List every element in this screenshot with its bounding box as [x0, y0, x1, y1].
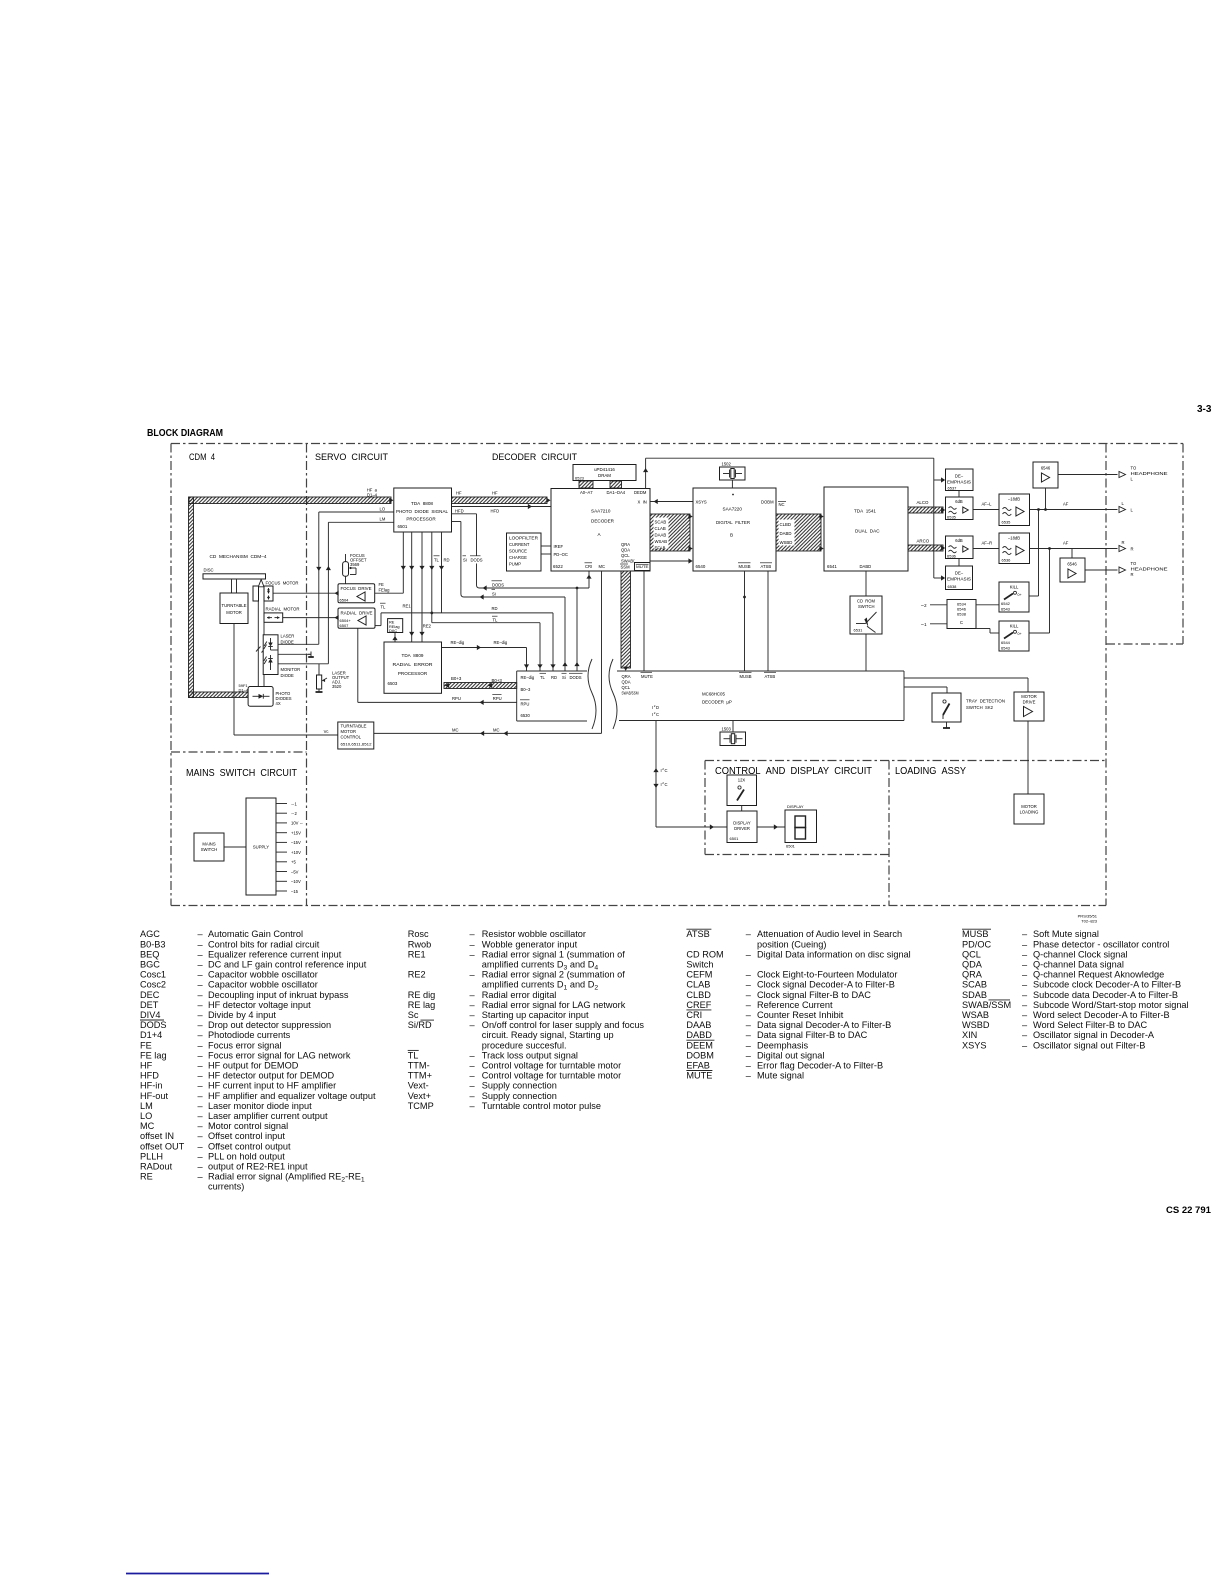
- frame control and display circuit box: [705, 761, 1106, 906]
- svg-text:DE–: DE–: [955, 571, 964, 576]
- svg-text:DIGITAL FILTER: DIGITAL FILTER: [716, 520, 751, 525]
- svg-text:6541: 6541: [827, 564, 837, 569]
- block -18dB amp right 6536: [999, 533, 1030, 564]
- svg-text:FE: FE: [140, 1040, 152, 1050]
- svg-text:C: C: [960, 620, 963, 625]
- bus SCAB/CLAB/DAAB/WSAB/EFAB hatched SAA7210 to SAA7220: [650, 514, 693, 551]
- svg-text:SSM: SSM: [621, 565, 631, 570]
- svg-text:IREF: IREF: [554, 544, 564, 549]
- terminal TO HEADPHONE R: [1119, 561, 1168, 577]
- block SAA7210 decoder A 6522: [551, 489, 650, 572]
- svg-text:position (Cueing): position (Cueing): [757, 939, 826, 949]
- svg-text:SWAB/: SWAB/: [621, 559, 635, 564]
- title DECODER CIRCUIT: [492, 452, 577, 463]
- svg-text:6501: 6501: [730, 836, 740, 841]
- svg-text:AF–L: AF–L: [982, 502, 993, 507]
- bus D1-4 hatched left bar: [189, 497, 194, 698]
- svg-text:AF: AF: [1063, 502, 1069, 507]
- svg-text:HF: HF: [456, 491, 462, 496]
- svg-text:offset IN: offset IN: [140, 1131, 174, 1141]
- svg-text:–: –: [198, 970, 204, 980]
- title MAINS SWITCH CIRCUIT: [186, 767, 297, 779]
- svg-text:WSBD: WSBD: [780, 540, 793, 545]
- svg-text:–: –: [470, 929, 476, 939]
- svg-text:MC68HC05: MC68HC05: [702, 692, 725, 697]
- svg-text:DEEM: DEEM: [686, 1040, 713, 1050]
- svg-text:–: –: [198, 1091, 204, 1101]
- svg-text:–5V: –5V: [291, 869, 299, 874]
- svg-text:6544: 6544: [1001, 640, 1011, 645]
- wire kill timer to KILL 6542: [976, 604, 999, 606]
- svg-text:Radial error signal for LAG ne: Radial error signal for LAG network: [482, 1000, 626, 1010]
- svg-text:DC and LF gain control referen: DC and LF gain control reference input: [208, 960, 367, 970]
- wire display driver to display: [757, 824, 785, 829]
- svg-text:SWITCH: SWITCH: [858, 604, 875, 609]
- svg-text:6543: 6543: [1001, 607, 1011, 612]
- svg-text:4X: 4X: [276, 701, 281, 706]
- svg-text:HFD: HFD: [455, 509, 464, 514]
- wire RE1 TDA8808 to TDA8809: [409, 532, 414, 642]
- svg-text:C: C: [665, 768, 668, 773]
- block kill timer 6534/6546/6538 C: [947, 600, 976, 629]
- block TDA8808 photo diode signal processor 6501: [394, 488, 452, 532]
- svg-text:DEC: DEC: [140, 990, 160, 1000]
- block supply: [246, 798, 276, 895]
- svg-text:Turntable control motor pulse: Turntable control motor pulse: [482, 1101, 601, 1111]
- svg-text:FE: FE: [379, 582, 385, 587]
- svg-text:6dB: 6dB: [955, 499, 963, 504]
- wire AF-L 6dB to -18dB: [973, 502, 999, 510]
- svg-text:offset OUT: offset OUT: [140, 1141, 185, 1151]
- svg-text:–: –: [470, 1091, 476, 1101]
- label Si DODS under TDA8808: [462, 556, 483, 564]
- svg-text:R: R: [1122, 540, 1125, 545]
- svg-text:Sc: Sc: [408, 1010, 419, 1020]
- frame CDM4/SERVO divider: [306, 444, 308, 906]
- svg-text:CLAB: CLAB: [655, 526, 666, 531]
- svg-text:RD: RD: [444, 558, 450, 563]
- svg-text:RADIAL DRIVE: RADIAL DRIVE: [341, 611, 373, 616]
- svg-text:DODS: DODS: [140, 1020, 167, 1030]
- wire decoder uP to motor drive: [904, 678, 1028, 692]
- svg-text:–: –: [746, 980, 752, 990]
- svg-text:6542: 6542: [1001, 601, 1011, 606]
- wire headphone amp L feed: [1045, 488, 1047, 510]
- block tray detection switch SK2: [932, 693, 1005, 722]
- svg-text:currents): currents): [208, 1182, 244, 1192]
- svg-text:Track loss output signal: Track loss output signal: [482, 1050, 578, 1060]
- svg-text:TRAY DETECTION: TRAY DETECTION: [966, 699, 1005, 704]
- svg-text:Resistor wobble oscillator: Resistor wobble oscillator: [482, 929, 586, 939]
- wire headphone L output: [1058, 474, 1118, 476]
- svg-text:–: –: [198, 1111, 204, 1121]
- block display driver 6501: [727, 811, 757, 843]
- block key switch 12X: [727, 775, 757, 806]
- svg-text:MAINS SWITCH CIRCUIT: MAINS SWITCH CIRCUIT: [186, 767, 297, 779]
- svg-text:CS 22 791: CS 22 791: [1166, 1205, 1212, 1216]
- wire I2C bus uP to display driver: [653, 721, 727, 830]
- svg-text:FElag: FElag: [379, 588, 391, 593]
- svg-text:B0–3: B0–3: [521, 687, 531, 692]
- svg-text:+10V: +10V: [291, 850, 301, 855]
- bus QRA/QDA/QCL/SWAB hatched SAA7210 to decoder uP: [621, 571, 631, 671]
- svg-text:RD: RD: [492, 606, 498, 611]
- svg-text:6530: 6530: [521, 713, 531, 718]
- bus B0+3 hatched TDA8809 to servo uP 6530: [444, 676, 517, 689]
- svg-text:–: –: [746, 1000, 752, 1010]
- svg-text:L: L: [1131, 477, 1134, 482]
- wire CD ROM switch to decoder uP: [865, 634, 867, 671]
- svg-text:D1–4: D1–4: [367, 493, 378, 498]
- wire DEDM SAA7210 to de-emphasis blocks: [643, 458, 945, 580]
- svg-text:–: –: [470, 1010, 476, 1020]
- svg-text:L: L: [1122, 501, 1125, 506]
- wire DODS 6530 to SAA7210 CRI: [452, 514, 592, 671]
- svg-text:TURNTABLE: TURNTABLE: [222, 603, 247, 608]
- label AC phase 2 input: [921, 603, 948, 608]
- svg-text:CLBD: CLBD: [686, 990, 711, 1000]
- svg-text:MUSB: MUSB: [740, 674, 752, 679]
- svg-text:RADout: RADout: [140, 1162, 173, 1172]
- svg-text:–: –: [198, 1101, 204, 1111]
- bus D1-4 hatched bottom bar: [189, 692, 249, 698]
- svg-text:–: –: [470, 1050, 476, 1060]
- svg-text:HF amplifier and equalizer vol: HF amplifier and equalizer voltage outpu…: [208, 1091, 376, 1101]
- svg-text:DODS: DODS: [471, 558, 483, 563]
- svg-text:RE2: RE2: [423, 624, 432, 629]
- svg-text:HEADPHONE: HEADPHONE: [1131, 471, 1168, 476]
- svg-text:PUMP: PUMP: [509, 562, 521, 567]
- svg-text:–: –: [470, 1000, 476, 1010]
- svg-text:Wobble generator input: Wobble generator input: [482, 939, 578, 949]
- svg-text:AF–R: AF–R: [982, 541, 993, 546]
- svg-text:–: –: [1022, 990, 1028, 1000]
- svg-text:–: –: [198, 1162, 204, 1172]
- wire LO TDA8808 to laser diode: [316, 507, 394, 645]
- svg-text:DAAB: DAAB: [655, 533, 667, 538]
- svg-text:–: –: [198, 929, 204, 939]
- svg-text:DRIVE: DRIVE: [1023, 700, 1036, 705]
- block TDA1541 dual DAC 6541: [824, 487, 908, 571]
- block motor drive: [1014, 692, 1044, 721]
- svg-text:Automatic Gain Control: Automatic Gain Control: [208, 929, 303, 939]
- svg-text:MC: MC: [140, 1121, 155, 1131]
- svg-text:EMPHASIS: EMPHASIS: [947, 577, 971, 582]
- terminal TO HEADPHONE L: [1119, 466, 1168, 482]
- wire AF R output line: [1030, 541, 1118, 550]
- optical pickup shaft: [256, 580, 266, 687]
- svg-text:LOADING: LOADING: [1020, 810, 1039, 815]
- svg-text:circuit. Ready signal, Startin: circuit. Ready signal, Starting up: [482, 1030, 614, 1040]
- svg-text:Q-channel Data signal: Q-channel Data signal: [1033, 960, 1124, 970]
- svg-text:SWAB/SSM: SWAB/SSM: [622, 691, 639, 696]
- label D1-4 photodiode output: [239, 683, 249, 693]
- footer blue line: [126, 1573, 269, 1575]
- svg-text:QCL: QCL: [621, 553, 630, 558]
- svg-text:LM: LM: [380, 517, 386, 522]
- svg-text:D1+4: D1+4: [140, 1030, 162, 1040]
- wire QRA subcode SAA7210 to SAA7220: [650, 558, 693, 563]
- svg-text:Supply connection: Supply connection: [482, 1081, 557, 1091]
- svg-text:BLOCK DIAGRAM: BLOCK DIAGRAM: [147, 428, 223, 439]
- block TDA8809 radial error processor 6503: [384, 642, 442, 693]
- block headphone amp 6546 left: [1033, 462, 1058, 488]
- wire turntable motor Vc to turntable motor control: [234, 624, 338, 736]
- svg-text:Vext-: Vext-: [408, 1081, 429, 1091]
- wire X IN SAA7220 to SAA7210: [650, 499, 693, 504]
- svg-text:CHARGE: CHARGE: [509, 555, 527, 560]
- svg-text:–: –: [470, 1061, 476, 1071]
- svg-text:10V ∼: 10V ∼: [291, 821, 303, 826]
- block turntable motor control 6510,6511,6512: [338, 722, 374, 749]
- wire motor drive to motor loading: [1027, 721, 1029, 794]
- svg-text:6543: 6543: [1001, 646, 1011, 651]
- wire mains switch to supply: [224, 846, 246, 848]
- svg-text:–: –: [198, 949, 204, 959]
- svg-text:QRA: QRA: [962, 970, 983, 980]
- svg-text:LOOPFILTER: LOOPFILTER: [509, 536, 538, 541]
- svg-text:RPU: RPU: [452, 696, 461, 701]
- wire MUTE SAA7210 to uP: [643, 571, 645, 672]
- svg-text:–: –: [746, 1010, 752, 1020]
- svg-text:Clock Eight-to-Fourteen Modula: Clock Eight-to-Fourteen Modulator: [757, 970, 897, 980]
- svg-text:DABD: DABD: [780, 531, 792, 536]
- bus ALCO hatched TDA1541 to 6dB-L: [908, 500, 945, 513]
- svg-text:HFD: HFD: [140, 1071, 159, 1081]
- disc: [203, 568, 266, 580]
- svg-text:6507: 6507: [340, 623, 350, 628]
- svg-text:–: –: [746, 1061, 752, 1071]
- svg-text:MC: MC: [493, 728, 500, 733]
- svg-text:–: –: [198, 960, 204, 970]
- svg-text:B0-B3: B0-B3: [140, 939, 166, 949]
- svg-text:Laser monitor diode input: Laser monitor diode input: [208, 1101, 312, 1111]
- svg-text:DIODE: DIODE: [281, 673, 294, 678]
- block radial drive 6504+/6507: [338, 608, 375, 628]
- svg-text:D: D: [656, 705, 659, 710]
- svg-text:FOCUS MOTOR: FOCUS MOTOR: [266, 581, 299, 586]
- svg-text:QCL: QCL: [962, 949, 981, 959]
- crystal 1503: [720, 721, 746, 746]
- svg-text:–: –: [1022, 960, 1028, 970]
- lens: [253, 586, 259, 601]
- svg-text:TTM-: TTM-: [408, 1061, 430, 1071]
- svg-text:–: –: [470, 990, 476, 1000]
- svg-text:SWITCH: SWITCH: [201, 847, 218, 852]
- svg-text:A0–A7: A0–A7: [580, 490, 593, 495]
- svg-text:DECODER: DECODER: [591, 519, 615, 524]
- svg-text:Vc: Vc: [324, 729, 329, 734]
- svg-text:–: –: [1022, 1010, 1028, 1020]
- svg-text:–: –: [198, 1020, 204, 1030]
- svg-text:DOBM: DOBM: [686, 1050, 714, 1060]
- wire 12X to display driver: [741, 806, 743, 812]
- svg-text:MONITOR: MONITOR: [281, 667, 301, 672]
- svg-text:Offset control output: Offset control output: [208, 1141, 291, 1151]
- svg-text:DISPLAY: DISPLAY: [733, 821, 751, 826]
- svg-text:–: –: [198, 990, 204, 1000]
- svg-text:WSAB: WSAB: [655, 539, 668, 544]
- svg-text:Radial error signal 2 (summati: Radial error signal 2 (summation of: [482, 970, 625, 980]
- svg-text:CRI: CRI: [686, 1010, 702, 1020]
- block de-emphasis 6537: [946, 469, 974, 491]
- svg-text:RD: RD: [551, 675, 557, 680]
- svg-text:RADIAL MOTOR: RADIAL MOTOR: [266, 607, 300, 612]
- svg-text:TDA 8809: TDA 8809: [402, 653, 424, 658]
- wire KILL 6544 to R line: [1029, 549, 1050, 634]
- svg-text:6522: 6522: [553, 564, 563, 569]
- svg-text:Equalizer reference current in: Equalizer reference current input: [208, 949, 342, 959]
- svg-text:Digital Data information on di: Digital Data information on disc signal: [757, 949, 911, 959]
- svg-text:Rosc: Rosc: [408, 929, 429, 939]
- svg-text:3520: 3520: [332, 684, 342, 689]
- svg-text:∼2: ∼2: [921, 603, 928, 608]
- wire radial drive to radial motor: [283, 615, 339, 620]
- svg-text:–: –: [198, 1071, 204, 1081]
- svg-text:L: L: [1131, 508, 1134, 513]
- svg-text:SAA7220: SAA7220: [723, 507, 743, 512]
- svg-text:Offset control input: Offset control input: [208, 1131, 285, 1141]
- svg-text:Focus error signal for LAG net: Focus error signal for LAG network: [208, 1050, 351, 1060]
- svg-text:HEADPHONE: HEADPHONE: [1131, 567, 1168, 572]
- label CD MECHANISM CDM-4: [210, 554, 268, 559]
- svg-text:RE2: RE2: [408, 970, 426, 980]
- svg-text:6537: 6537: [948, 485, 958, 490]
- svg-text:FE lag: FE lag: [140, 1050, 167, 1060]
- svg-text:PROCESSOR: PROCESSOR: [398, 671, 428, 676]
- svg-text:TURNTABLE: TURNTABLE: [341, 724, 367, 729]
- svg-text:Word Select Filter-B to DAC: Word Select Filter-B to DAC: [1033, 1020, 1148, 1030]
- svg-text:LO: LO: [380, 507, 386, 512]
- svg-text:Supply connection: Supply connection: [482, 1091, 557, 1101]
- svg-text:+5: +5: [291, 860, 296, 865]
- block laser and monitor diode: [263, 634, 300, 679]
- svg-text:12X: 12X: [738, 778, 746, 783]
- svg-text:RE: RE: [140, 1172, 153, 1182]
- svg-text:DAAB: DAAB: [686, 1020, 711, 1030]
- svg-text:PD–OC: PD–OC: [554, 552, 568, 557]
- svg-text:–: –: [1022, 1000, 1028, 1010]
- svg-text:Subcode data Decoder-A to Filt: Subcode data Decoder-A to Filter-B: [1033, 990, 1178, 1000]
- svg-text:ATSB: ATSB: [765, 674, 776, 679]
- svg-text:LOADING ASSY: LOADING ASSY: [895, 766, 966, 777]
- block headphone amp 6546 right: [1060, 558, 1085, 582]
- title CONTROL AND DISPLAY CIRCUIT: [715, 766, 872, 777]
- legend SSM overline: [989, 999, 1011, 1001]
- svg-text:–: –: [746, 990, 752, 1000]
- svg-text:6504: 6504: [340, 597, 350, 602]
- svg-text:CD MECHANISM CDM–4: CD MECHANISM CDM–4: [210, 554, 268, 559]
- svg-text:DISC: DISC: [204, 568, 214, 573]
- bus CLBD/DABD/WSBD hatched SAA7220 to TDA1541: [776, 514, 824, 551]
- svg-text:R: R: [1131, 547, 1134, 552]
- svg-text:Photodiode currents: Photodiode currents: [208, 1030, 291, 1040]
- svg-text:PHOTO DIODE SIGNAL: PHOTO DIODE SIGNAL: [396, 509, 448, 514]
- svg-text:RE1: RE1: [408, 949, 426, 959]
- svg-text:–: –: [198, 1151, 204, 1161]
- svg-text:–: –: [746, 1020, 752, 1030]
- legend column 3: [686, 929, 910, 1080]
- bus D1-4 photodiode hatched top bar: [189, 497, 391, 504]
- svg-text:TDA 8808: TDA 8808: [411, 501, 433, 506]
- svg-text:EFAB: EFAB: [655, 546, 666, 551]
- svg-text:DA1–DA4: DA1–DA4: [607, 490, 626, 495]
- svg-text:MOTOR: MOTOR: [1021, 694, 1037, 699]
- block KILL switch 6544/6543: [999, 621, 1029, 651]
- wire KILL 6542 to L line: [1029, 510, 1039, 597]
- svg-text:procedure succesful.: procedure succesful.: [482, 1040, 567, 1050]
- svg-text:6536: 6536: [1002, 558, 1012, 563]
- svg-text:–: –: [1022, 970, 1028, 980]
- svg-text:NC: NC: [779, 502, 785, 507]
- svg-text:TL: TL: [434, 558, 440, 563]
- svg-text:Subcode Word/Start-stop motor: Subcode Word/Start-stop motor signal: [1033, 1000, 1189, 1010]
- svg-text:6546: 6546: [1067, 562, 1077, 567]
- wire monitor diode to LM: [278, 663, 328, 665]
- svg-text:TDA 1541: TDA 1541: [854, 509, 876, 514]
- svg-text:–: –: [198, 1000, 204, 1010]
- svg-text:Divide by 4 input: Divide by 4 input: [208, 1010, 276, 1020]
- block SAA7220 digital filter B 6540: [693, 488, 776, 571]
- svg-text:X IN: X IN: [638, 500, 647, 505]
- svg-text:–: –: [746, 929, 752, 939]
- svg-text:Laser amplifier current output: Laser amplifier current output: [208, 1111, 328, 1121]
- svg-text:DIV4: DIV4: [140, 1010, 160, 1020]
- break squiggle right: [609, 659, 617, 729]
- svg-text:PROCESSOR: PROCESSOR: [406, 517, 436, 522]
- svg-text:EMPHASIS: EMPHASIS: [947, 480, 971, 485]
- svg-text:On/off control for laser suppl: On/off control for laser supply and focu…: [482, 1020, 645, 1030]
- svg-text:Data signal Filter-B to DAC: Data signal Filter-B to DAC: [757, 1030, 868, 1040]
- svg-text:QCL: QCL: [622, 685, 631, 690]
- svg-text:PD/OC: PD/OC: [962, 939, 991, 949]
- wire RD TDA8808 pin down: [439, 532, 444, 613]
- svg-text:ATSB: ATSB: [686, 929, 709, 939]
- frame outer dash-dot boundary: [171, 444, 1183, 906]
- svg-text:∼1: ∼1: [921, 622, 928, 627]
- svg-text:Control voltage for turntable: Control voltage for turntable motor: [482, 1071, 621, 1081]
- svg-text:–: –: [470, 1071, 476, 1081]
- svg-text:Subcode clock Decoder-A to Fil: Subcode clock Decoder-A to Filter-B: [1033, 980, 1181, 990]
- document number CS 22 791: [1166, 1205, 1212, 1216]
- wire RE2 TDA8808 to TDA8809: [419, 532, 431, 642]
- wire LM monitor diode to TDA8808: [326, 517, 394, 664]
- title LOADING ASSY: [895, 766, 966, 777]
- frame CDM4/MAINS divider: [171, 751, 307, 753]
- svg-text:–: –: [470, 970, 476, 980]
- svg-text:AGC: AGC: [140, 929, 160, 939]
- wire Si 6530 to TDA8808: [452, 522, 568, 672]
- svg-text:DEDM: DEDM: [634, 490, 647, 495]
- svg-text:CD ROM: CD ROM: [686, 949, 723, 959]
- svg-text:–: –: [470, 1101, 476, 1111]
- bus D1-4 arrow into TDA8808: [389, 498, 393, 503]
- svg-text:WSBD: WSBD: [962, 1020, 990, 1030]
- svg-text:MAINS: MAINS: [202, 842, 215, 847]
- svg-text:–: –: [1022, 949, 1028, 959]
- svg-text:RE–dig: RE–dig: [494, 640, 508, 645]
- svg-text:–: –: [198, 1141, 204, 1151]
- svg-text:R: R: [1131, 572, 1134, 577]
- svg-text:–: –: [746, 1030, 752, 1040]
- svg-text:Phase detector - oscillator co: Phase detector - oscillator control: [1033, 939, 1169, 949]
- svg-text:3-3: 3-3: [1197, 404, 1212, 415]
- svg-text:Counter Reset Inhibit: Counter Reset Inhibit: [757, 1010, 844, 1020]
- title CDM 4: [189, 452, 215, 463]
- svg-text:PLLH: PLLH: [140, 1151, 163, 1161]
- svg-text:DIODE: DIODE: [281, 640, 294, 645]
- svg-text:SUPPLY: SUPPLY: [253, 845, 269, 850]
